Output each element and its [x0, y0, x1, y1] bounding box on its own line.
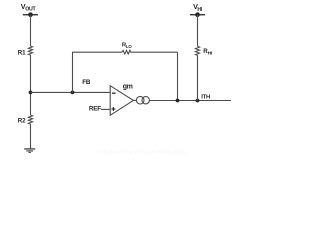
gm output current-source circle 1 [136, 96, 144, 104]
node FB junction dot left [29, 91, 33, 95]
svg-text:1735 F11 ACTIVE VOLTAGE POSIT: 1735 F11 ACTIVE VOLTAGE POSITIONING [96, 150, 187, 155]
gm output current-source circle 2 [142, 97, 149, 104]
op-amp U1 (gm error amplifier) [110, 86, 133, 116]
svg-text:OUT: OUT [25, 6, 36, 12]
resistor RLO [122, 50, 131, 54]
wire ITH output [149, 100, 231, 102]
node VHI label [193, 2, 203, 13]
wire FB node to op-amp inverting input [31, 91, 111, 93]
wire RHI to ITH [197, 55, 199, 100]
svg-text:gm: gm [123, 84, 133, 91]
node VOUT terminal bar [23, 14, 38, 16]
op-amp minus sign [112, 92, 116, 94]
wire RLO branch down to ITH [177, 52, 179, 100]
wire VOUT to R1 [30, 15, 32, 46]
svg-text:R2: R2 [18, 118, 26, 125]
node VOUT label [21, 2, 37, 13]
resistor R2 [28, 115, 32, 124]
resistor RHI [195, 46, 199, 55]
wire top left segment [72, 51, 122, 53]
node VOUT junction dot [28, 12, 33, 17]
node VHI terminal bar [190, 14, 205, 16]
wire R1 to R2 [30, 55, 32, 115]
svg-text:LO: LO [126, 44, 133, 49]
wire op-amp tip to current-source circles [133, 99, 136, 101]
svg-text:HI: HI [208, 51, 213, 56]
node FB junction dot mid [71, 91, 75, 95]
wire top right segment [131, 51, 178, 53]
svg-text:FB: FB [82, 79, 91, 86]
svg-text:ITH: ITH [201, 94, 210, 100]
node junction dot RHI/ITH [196, 99, 200, 103]
ground [24, 149, 35, 153]
label RHI [203, 48, 212, 56]
label RLO [122, 42, 132, 48]
wire FB branch up to RLO [72, 52, 74, 92]
wire R2 to ground [30, 124, 32, 149]
node VHI junction dot [195, 12, 200, 17]
node junction dot RLO/ITH [176, 99, 180, 103]
svg-text:HI: HI [197, 7, 202, 13]
svg-text:R1: R1 [18, 49, 26, 56]
resistor R1 [28, 46, 32, 55]
wire VHI to RHI [197, 15, 199, 47]
svg-text:REF: REF [89, 106, 101, 113]
op-amp plus sign [112, 107, 116, 111]
wire REF to op-amp non-inverting input [101, 108, 110, 110]
